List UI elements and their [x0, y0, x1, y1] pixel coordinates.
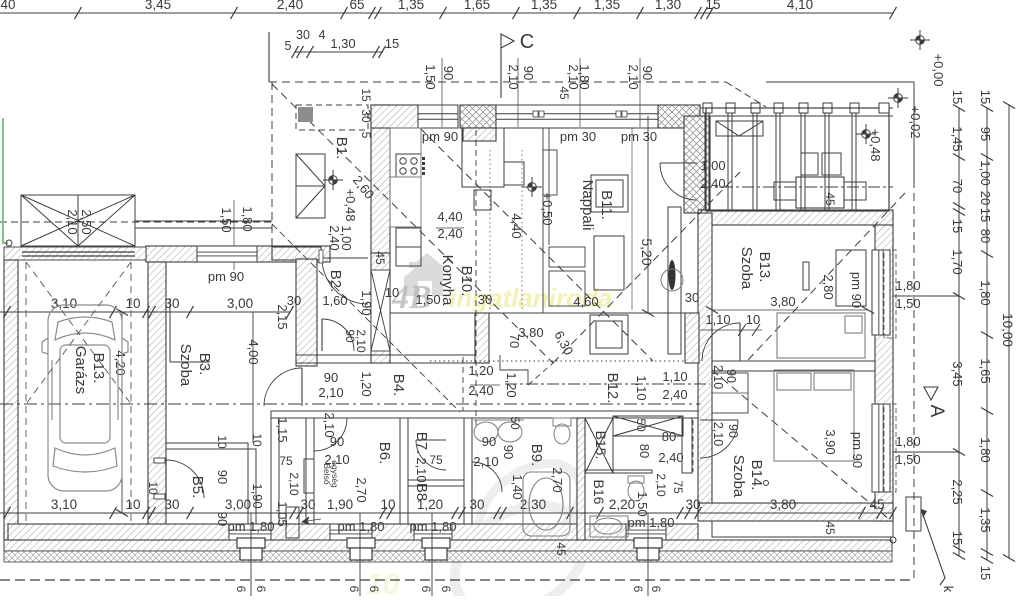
terrace border [706, 108, 889, 211]
svg-text:45: 45 [823, 192, 837, 206]
dashed vert near pillar [462, 357, 464, 411]
B14 wardrobe [712, 373, 748, 413]
svg-text:B4.: B4. [390, 374, 407, 397]
property dashed line bottom [0, 579, 913, 581]
svg-text:2,10: 2,10 [414, 457, 429, 482]
svg-text:1,50: 1,50 [895, 296, 920, 311]
svg-text:3,10: 3,10 [51, 497, 77, 512]
svg-text:3,80: 3,80 [770, 294, 795, 309]
AC indoor unit [304, 459, 314, 493]
svg-text:egység: egység [330, 460, 340, 488]
wall B15/B16 [585, 470, 652, 473]
terrace beam [700, 107, 893, 109]
svg-text:1,70: 1,70 [950, 249, 965, 274]
B3 wardrobe corner [169, 298, 171, 362]
door B13 [739, 323, 741, 361]
wall top NE corner crosshatch [658, 105, 700, 128]
svg-text:90: 90 [521, 66, 536, 80]
svg-text:65: 65 [349, 0, 364, 12]
roof diagonal D2 [553, 172, 740, 363]
dotted beam line [430, 360, 685, 362]
right dim col B [986, 108, 988, 560]
svg-text:50: 50 [634, 418, 648, 432]
door B2 entry [322, 257, 368, 259]
kitchen fridge [474, 190, 491, 210]
wall B2 block top [272, 247, 321, 260]
svg-text:1,10: 1,10 [662, 369, 687, 384]
svg-text:2,40: 2,40 [700, 176, 725, 191]
svg-text:10,00: 10,00 [1000, 313, 1015, 347]
svg-text:1,10: 1,10 [634, 375, 649, 400]
watermark bottom circle logo [435, 445, 604, 601]
svg-text:B14.: B14. [748, 460, 765, 491]
svg-text:30: 30 [469, 497, 484, 512]
right dim col A [958, 108, 960, 556]
terrace posts [704, 112, 706, 210]
wall south left wing [8, 524, 698, 540]
svg-text:1,65: 1,65 [464, 0, 490, 12]
B1 planter dashed [296, 105, 368, 130]
svg-text:15: 15 [950, 531, 965, 545]
svg-text:1,50: 1,50 [423, 64, 438, 89]
svg-text:B7.: B7. [413, 432, 430, 455]
eaves dashed top [269, 81, 726, 83]
svg-text:3,80: 3,80 [770, 497, 796, 512]
B9 washbasins [474, 420, 524, 442]
svg-text:2,10: 2,10 [318, 385, 343, 400]
svg-text:6: 6 [254, 586, 268, 593]
svg-text:10: 10 [250, 433, 264, 447]
B13 single bed [777, 313, 865, 358]
garage dashed X [26, 262, 131, 404]
svg-text:Garázs: Garázs [72, 346, 89, 394]
wall B13 north [698, 210, 893, 225]
svg-text:90: 90 [726, 424, 740, 438]
wall spine vertical [698, 213, 712, 503]
stove knobs [422, 157, 425, 175]
svg-text:4,20: 4,20 [113, 350, 128, 375]
watermark house logo center [404, 253, 449, 296]
window south B5 [229, 524, 271, 540]
svg-text:1,50: 1,50 [415, 292, 440, 307]
svg-text:10: 10 [125, 296, 140, 311]
svg-text:5,20: 5,20 [639, 238, 655, 265]
svg-text:10: 10 [125, 497, 140, 512]
B15 closet X vertical [585, 418, 613, 473]
svg-text:10: 10 [146, 481, 160, 495]
marker C flag [501, 34, 514, 98]
svg-text:1,35: 1,35 [398, 0, 424, 12]
svg-text:Nappali: Nappali [579, 180, 596, 231]
svg-text:pm 1,80: pm 1,80 [410, 519, 457, 534]
svg-text:30: 30 [685, 497, 700, 512]
svg-text:4,40: 4,40 [509, 213, 524, 238]
svg-text:15: 15 [978, 566, 993, 580]
AC arrow [302, 517, 321, 524]
svg-text:6: 6 [347, 586, 361, 593]
svg-text:15: 15 [950, 219, 965, 233]
walkway hatch garage front [4, 247, 146, 260]
svg-text:pm 1,80: pm 1,80 [338, 519, 385, 534]
right leader upper [893, 295, 959, 297]
svg-text:6: 6 [631, 586, 645, 593]
svg-text:1,05: 1,05 [275, 501, 290, 526]
benchmark +0,48 terrace [856, 124, 876, 144]
svg-text:C: C [520, 31, 534, 53]
window south B8 [414, 524, 452, 540]
svg-text:80: 80 [637, 444, 652, 458]
svg-text:2,40: 2,40 [277, 0, 303, 12]
svg-text:1,90: 1,90 [359, 290, 374, 315]
svg-text:5: 5 [285, 39, 292, 53]
wall B13/B14 [712, 361, 875, 371]
dotted dim line kitchen [489, 150, 491, 310]
svg-text:2,10: 2,10 [287, 472, 301, 496]
svg-text:2,40: 2,40 [468, 383, 493, 398]
eaves dashed left vertical [271, 82, 273, 246]
svg-text:30: 30 [359, 109, 373, 123]
svg-text:90: 90 [501, 445, 516, 459]
svg-text:pm 90: pm 90 [422, 129, 458, 144]
dashed line B16 east [692, 420, 694, 472]
small circle o B14 [764, 481, 769, 486]
vert dim B3 4,00 [252, 312, 254, 443]
svg-text:B1.: B1. [333, 137, 350, 160]
wall right outer [875, 225, 893, 521]
svg-text:2,10: 2,10 [322, 412, 337, 437]
svg-text:+0,50: +0,50 [540, 193, 555, 226]
svg-text:30: 30 [287, 293, 301, 308]
dashed eave vert kitchen [475, 130, 477, 425]
svg-text:2,10: 2,10 [626, 64, 641, 89]
svg-text:90: 90 [215, 470, 230, 484]
door B7 [416, 439, 446, 441]
svg-text:B10.: B10. [458, 266, 475, 297]
svg-text:1,80: 1,80 [577, 64, 592, 89]
svg-text:1,80: 1,80 [895, 278, 920, 293]
door B14 [700, 419, 738, 421]
door B2 south [321, 319, 323, 351]
window south B16 [626, 524, 666, 540]
svg-text:3,00: 3,00 [225, 497, 251, 512]
terrace bench [716, 121, 763, 136]
B2 east glazing X panel [371, 270, 390, 351]
svg-text:4,10: 4,10 [787, 0, 813, 12]
svg-text:1,80: 1,80 [240, 206, 255, 231]
legend k box [906, 497, 921, 531]
svg-text:+0,48: +0,48 [343, 189, 358, 222]
svg-text:k: k [941, 586, 956, 593]
svg-text:45: 45 [823, 521, 837, 535]
svg-text:10: 10 [385, 285, 399, 300]
svg-text:+0,02: +0,02 [908, 106, 923, 139]
svg-text:75: 75 [671, 480, 685, 494]
svg-text:1,10: 1,10 [705, 312, 730, 327]
svg-text:90: 90 [441, 66, 456, 80]
kitchen sink cabinets [396, 228, 421, 266]
svg-text:30: 30 [164, 497, 179, 512]
AC outdoor unit [286, 507, 299, 538]
pergola beam lines [135, 220, 272, 222]
wall B9/B15 hatched [577, 418, 585, 540]
svg-text:4,40: 4,40 [437, 209, 462, 224]
eaves corner diagonal B2 [272, 224, 460, 412]
vert dim garage 4,20 [121, 312, 123, 513]
small circle o right [890, 537, 896, 543]
kitchen counter west [390, 128, 421, 227]
svg-text:pm 90: pm 90 [208, 269, 244, 284]
window B14 east [872, 404, 890, 492]
window kitchen north [418, 105, 458, 128]
svg-text:95: 95 [978, 127, 993, 141]
svg-text:15: 15 [978, 90, 993, 104]
pillar living SW [475, 313, 489, 363]
wall B2 east [371, 253, 390, 363]
terrace axis dashdot [700, 186, 893, 188]
svg-text:A: A [926, 405, 947, 418]
svg-text:1,35: 1,35 [978, 507, 993, 532]
wall top north kitchen seg [371, 105, 418, 128]
dining table [590, 315, 628, 354]
svg-text:1,15: 1,15 [275, 417, 290, 442]
garage interior dashed [25, 262, 27, 524]
window B3 north [197, 246, 257, 262]
top dimension chain [0, 12, 893, 14]
svg-text:1,50: 1,50 [895, 452, 920, 467]
svg-text:10: 10 [746, 312, 760, 327]
B13 door dim line [700, 329, 762, 331]
right leader lower [893, 451, 959, 453]
benchmark +0,48 B1 [323, 170, 343, 190]
svg-text:50: 50 [508, 416, 522, 430]
svg-text:1,45: 1,45 [950, 126, 965, 151]
terrace table [796, 177, 844, 208]
svg-text:pm 90: pm 90 [849, 272, 864, 308]
wall B16 east [682, 418, 692, 473]
svg-text:3,00: 3,00 [227, 296, 253, 311]
wall B7/B8 [408, 480, 464, 486]
living coffee table [594, 236, 624, 290]
svg-text:B5.: B5. [189, 476, 206, 499]
living bottom line [390, 312, 699, 314]
svg-text:6: 6 [367, 586, 381, 593]
svg-text:B15.: B15. [593, 431, 609, 460]
svg-text:B6.: B6. [376, 442, 393, 465]
svg-text:B9.: B9. [528, 444, 545, 467]
sidewalk hatch band [4, 540, 892, 551]
svg-text:1,35: 1,35 [594, 0, 620, 12]
svg-text:90: 90 [482, 434, 496, 449]
eaves solid top right [766, 81, 914, 83]
window B13 east [872, 250, 890, 335]
svg-text:45: 45 [869, 497, 884, 512]
wall B2 south [296, 355, 489, 363]
svg-text:70: 70 [950, 179, 965, 193]
step near corridor [500, 355, 528, 385]
door B5 [165, 460, 167, 498]
svg-text:45: 45 [557, 86, 571, 100]
door B6 [314, 417, 347, 419]
wall vestibule east [271, 418, 279, 524]
svg-text:6: 6 [649, 586, 663, 593]
svg-text:6: 6 [419, 586, 433, 593]
wall garage west [4, 260, 18, 540]
svg-text:B13.: B13. [756, 252, 773, 283]
eaves vertical top-left [268, 32, 270, 82]
bottom vertical stubs [250, 513, 252, 596]
wall vestibule west [248, 449, 256, 524]
svg-text:pm 90: pm 90 [850, 432, 865, 468]
wall living east [684, 116, 710, 213]
svg-text:2,50: 2,50 [79, 209, 94, 234]
eaves right vertical dashed [913, 180, 915, 578]
sidewalk crosshatch band [4, 551, 892, 562]
svg-text:4,00: 4,00 [246, 339, 261, 364]
roof diagonal corner TR [726, 82, 766, 107]
k leader arrow [921, 509, 945, 585]
B1 gray pad [298, 107, 313, 122]
svg-text:15: 15 [385, 36, 399, 51]
svg-text:2,10: 2,10 [654, 473, 668, 497]
svg-text:1,00: 1,00 [978, 160, 993, 185]
svg-text:1,40: 1,40 [510, 474, 525, 499]
svg-text:B8: B8 [413, 483, 430, 501]
svg-text:15: 15 [359, 88, 373, 102]
B15 closet X horizontal [613, 416, 683, 436]
svg-text:1,90: 1,90 [250, 483, 265, 508]
svg-text:1,80: 1,80 [978, 437, 993, 462]
svg-text:1,00: 1,00 [700, 158, 725, 173]
svg-text:1,30: 1,30 [655, 0, 681, 12]
wall north left wing [146, 246, 330, 262]
svg-text:1,20: 1,20 [359, 371, 374, 396]
svg-text:B11.: B11. [598, 190, 615, 220]
door living-terrace [660, 162, 697, 164]
pillar living SE [685, 313, 699, 363]
svg-text:Szoba: Szoba [738, 247, 755, 290]
wall B6/B7 [400, 418, 408, 524]
wall B3 east [296, 259, 317, 366]
svg-text:15: 15 [950, 90, 965, 104]
roof diagonal right wing lower [712, 370, 890, 520]
svg-text:2,15: 2,15 [275, 304, 290, 329]
b4 opening leader [470, 384, 500, 386]
marker A triangle [924, 387, 938, 400]
dashdot line B12 [505, 383, 710, 385]
svg-text:45: 45 [554, 542, 568, 556]
svg-text:3,90: 3,90 [823, 429, 838, 454]
terrace chairs [801, 153, 818, 175]
svg-text:30: 30 [164, 296, 179, 311]
svg-text:2,25: 2,25 [950, 479, 965, 504]
svg-text:2,70: 2,70 [550, 467, 565, 492]
vert dim living 5,20 [647, 116, 649, 313]
roof diagonal D3 living [420, 128, 653, 361]
svg-text:1,80: 1,80 [978, 280, 993, 305]
svg-text:1,20: 1,20 [468, 363, 493, 378]
svg-text:30: 30 [296, 28, 310, 42]
right dim col C [1008, 105, 1010, 558]
svg-text:Szoba: Szoba [730, 455, 747, 498]
svg-text:2,10: 2,10 [65, 209, 80, 234]
living TV [669, 260, 676, 290]
svg-text:1,35: 1,35 [531, 0, 557, 12]
svg-text:2,10: 2,10 [354, 329, 368, 353]
garage door line [22, 251, 135, 253]
svg-text:75: 75 [429, 453, 443, 467]
svg-text:1,30: 1,30 [330, 36, 355, 51]
living floor lamp [661, 269, 683, 291]
secondary top dimension [295, 51, 383, 53]
svg-text:80: 80 [662, 429, 676, 444]
benchmark +0,50 living [522, 177, 542, 197]
svg-text:1,50: 1,50 [219, 207, 234, 232]
svg-text:30: 30 [685, 290, 699, 305]
window frame marks [533, 111, 627, 117]
svg-text:2,10: 2,10 [473, 454, 498, 469]
bathtub B9 [523, 472, 570, 536]
kitchen peninsula counter [543, 128, 585, 313]
window dim extension lines [441, 58, 443, 127]
B13 dim line 3,80 [712, 309, 868, 311]
svg-text:1,90: 1,90 [327, 497, 353, 512]
bottom dimension chain [0, 512, 893, 514]
svg-text:15: 15 [705, 0, 720, 12]
green utility line [3, 118, 8, 243]
svg-text:1,60: 1,60 [322, 293, 347, 308]
wall B6 west [306, 418, 314, 524]
small circle o left [6, 240, 12, 246]
living TV cabinet [668, 207, 681, 354]
wall B7/B9 [464, 418, 472, 524]
svg-text:75: 75 [279, 454, 293, 468]
svg-text:90: 90 [324, 370, 338, 385]
right wing stoop [712, 521, 893, 537]
svg-text:2,10: 2,10 [506, 64, 521, 89]
garage canopy roof [21, 195, 135, 246]
svg-text:3,45: 3,45 [145, 0, 171, 12]
svg-text:4,60: 4,60 [573, 294, 598, 309]
dashed line garage canopy [0, 221, 272, 223]
wall B3 south [166, 443, 248, 449]
window south B6 [330, 524, 372, 540]
benchmark +0,00 [910, 30, 930, 50]
svg-text:6: 6 [234, 586, 248, 593]
wall corridor south [271, 411, 698, 418]
svg-text:+0,00: +0,00 [931, 54, 946, 87]
eaves right vertical [913, 82, 915, 180]
svg-text:30: 30 [300, 497, 315, 512]
section dashed through corridor [0, 403, 700, 405]
svg-text:90: 90 [640, 66, 655, 80]
svg-text:3,45: 3,45 [950, 361, 965, 386]
svg-text:10: 10 [215, 435, 229, 449]
kitchen tall cabinet [462, 128, 504, 187]
B13 desk [836, 250, 866, 306]
svg-text:10: 10 [380, 497, 395, 512]
wall top north mid pillar [460, 105, 496, 128]
svg-text:80: 80 [978, 229, 993, 243]
svg-text:2,40: 2,40 [658, 450, 683, 465]
svg-text:2,40: 2,40 [662, 387, 687, 402]
svg-text:B2.: B2. [327, 270, 344, 293]
svg-text:40: 40 [0, 0, 15, 12]
svg-text:4: 4 [319, 28, 326, 42]
door B3 [301, 368, 303, 406]
svg-text:90: 90 [215, 512, 230, 526]
benchmark +0,02 [888, 88, 908, 108]
svg-text:3,80: 3,80 [518, 325, 543, 340]
